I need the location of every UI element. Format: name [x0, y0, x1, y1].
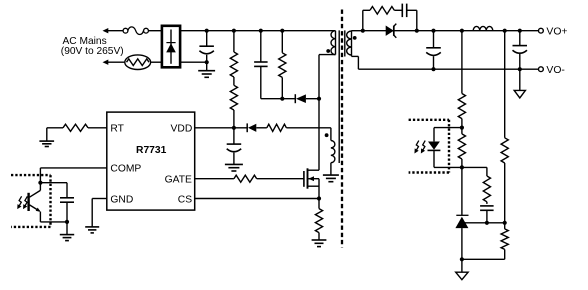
- svg-text:VDD: VDD: [171, 124, 193, 135]
- svg-text:RT: RT: [110, 124, 124, 135]
- svg-text:VO+: VO+: [546, 26, 567, 37]
- svg-text:COMP: COMP: [110, 164, 141, 175]
- svg-text:VO-: VO-: [546, 65, 564, 76]
- svg-text:(90V to 265V): (90V to 265V): [61, 46, 124, 57]
- svg-text:R7731: R7731: [136, 145, 167, 156]
- svg-text:CS: CS: [178, 194, 192, 205]
- svg-text:GATE: GATE: [165, 175, 192, 186]
- svg-text:GND: GND: [110, 194, 133, 205]
